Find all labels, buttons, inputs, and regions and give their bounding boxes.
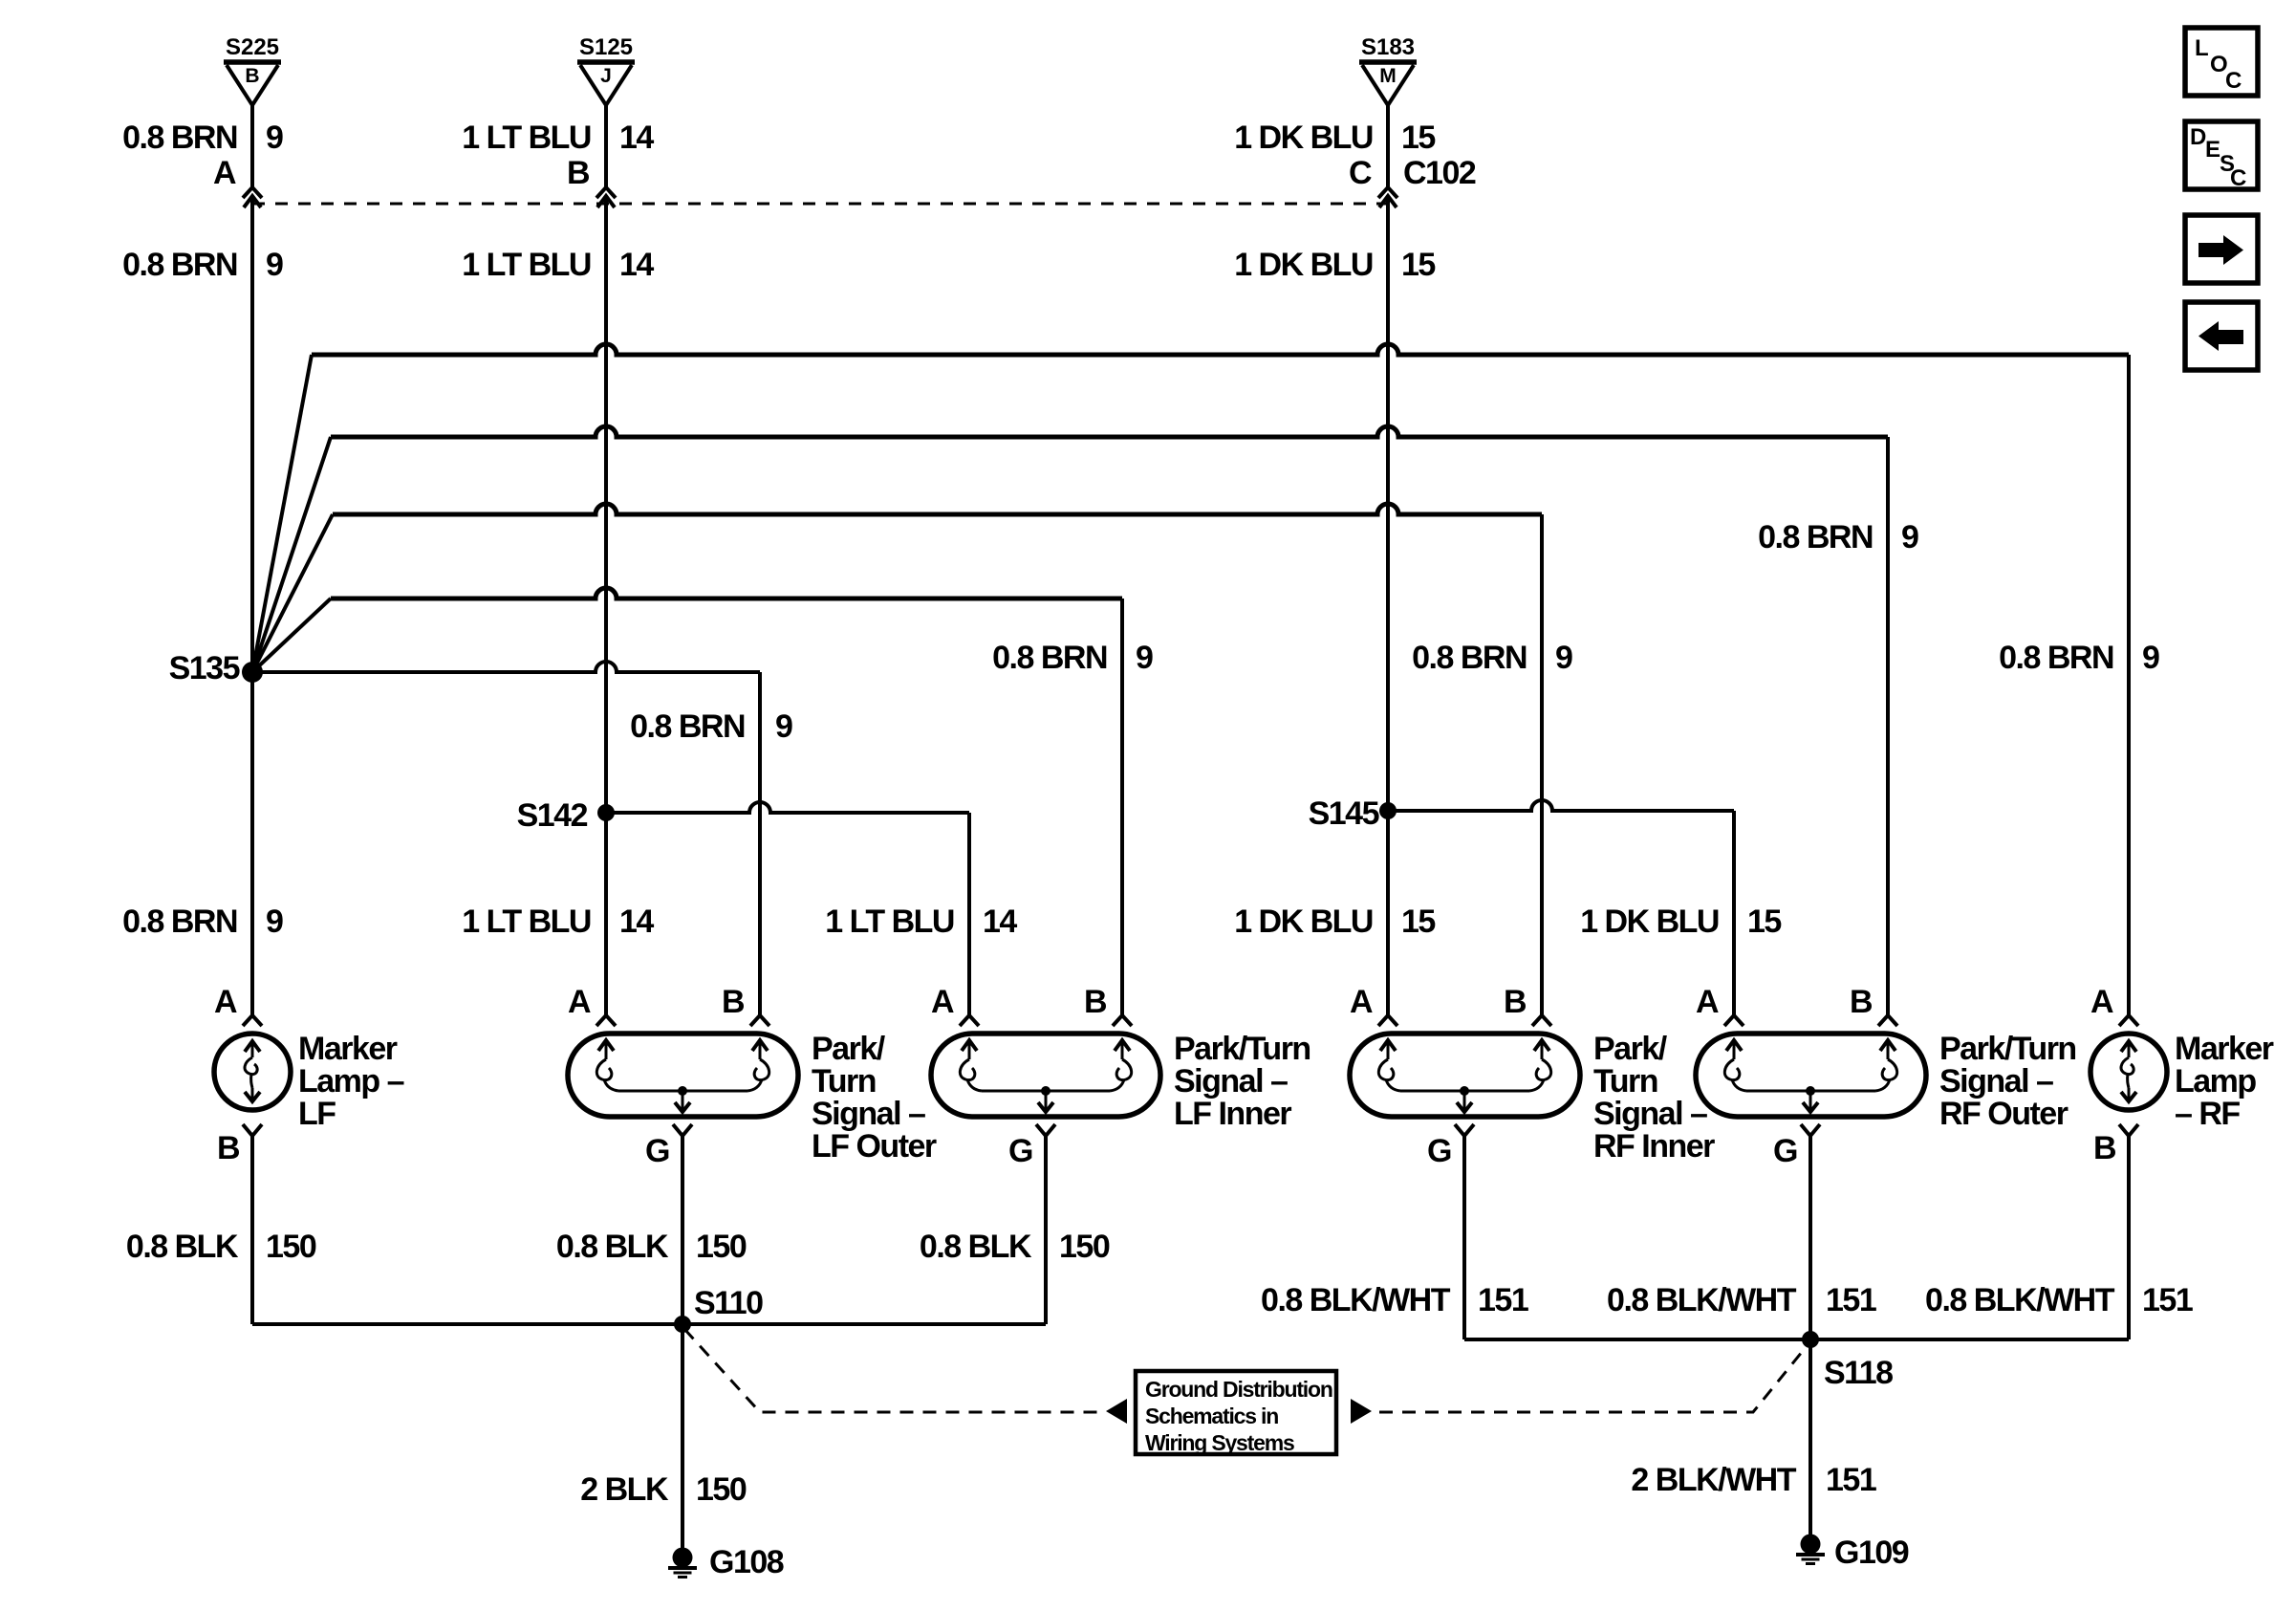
- svg-text:0.8 BRN: 0.8 BRN: [122, 247, 237, 283]
- svg-text:C: C: [2225, 68, 2242, 94]
- svg-text:1 LT BLU: 1 LT BLU: [462, 247, 591, 283]
- svg-text:1 DK BLU: 1 DK BLU: [1580, 903, 1719, 940]
- svg-text:0.8 BLK/WHT: 0.8 BLK/WHT: [1261, 1282, 1451, 1318]
- svg-text:G109: G109: [1834, 1535, 1909, 1571]
- svg-text:2 BLK: 2 BLK: [580, 1471, 669, 1508]
- svg-text:0.8 BLK: 0.8 BLK: [126, 1229, 239, 1265]
- svg-text:– RF: – RF: [2175, 1096, 2240, 1132]
- svg-text:Marker: Marker: [298, 1031, 398, 1067]
- svg-text:1 LT BLU: 1 LT BLU: [825, 903, 954, 940]
- svg-text:0.8 BRN: 0.8 BRN: [122, 120, 237, 156]
- svg-text:C: C: [2230, 165, 2246, 191]
- svg-text:9: 9: [266, 903, 283, 940]
- svg-text:0.8 BRN: 0.8 BRN: [1412, 640, 1527, 676]
- svg-text:Schematics in: Schematics in: [1145, 1404, 1278, 1428]
- svg-text:0.8 BLK/WHT: 0.8 BLK/WHT: [1925, 1282, 2115, 1318]
- svg-text:B: B: [567, 155, 590, 191]
- svg-text:J: J: [600, 65, 612, 87]
- svg-text:15: 15: [1401, 120, 1435, 156]
- svg-text:A: A: [2090, 984, 2113, 1020]
- svg-text:A: A: [214, 984, 237, 1020]
- svg-text:L: L: [2195, 35, 2209, 61]
- svg-text:1 DK BLU: 1 DK BLU: [1234, 120, 1373, 156]
- svg-text:151: 151: [1826, 1462, 1876, 1498]
- svg-text:0.8 BRN: 0.8 BRN: [992, 640, 1107, 676]
- svg-text:LF Inner: LF Inner: [1174, 1096, 1291, 1132]
- svg-text:1 LT BLU: 1 LT BLU: [462, 120, 591, 156]
- svg-text:14: 14: [619, 903, 654, 940]
- svg-text:Lamp –: Lamp –: [298, 1063, 404, 1099]
- svg-text:A: A: [1350, 984, 1373, 1020]
- svg-text:C102: C102: [1403, 155, 1476, 191]
- svg-text:0.8 BRN: 0.8 BRN: [1999, 640, 2113, 676]
- svg-text:G: G: [645, 1133, 669, 1169]
- svg-text:G: G: [1427, 1133, 1451, 1169]
- svg-text:0.8 BRN: 0.8 BRN: [630, 708, 745, 745]
- svg-text:9: 9: [1901, 519, 1918, 555]
- svg-text:0.8 BLK/WHT: 0.8 BLK/WHT: [1607, 1282, 1797, 1318]
- svg-text:C: C: [1349, 155, 1372, 191]
- svg-text:S125: S125: [579, 34, 633, 60]
- svg-text:9: 9: [2142, 640, 2159, 676]
- svg-text:1 LT BLU: 1 LT BLU: [462, 903, 591, 940]
- svg-text:RF Outer: RF Outer: [1939, 1096, 2069, 1132]
- svg-text:14: 14: [983, 903, 1017, 940]
- svg-text:Park/Turn: Park/Turn: [1939, 1031, 2076, 1067]
- svg-text:9: 9: [266, 247, 283, 283]
- svg-text:Signal –: Signal –: [812, 1096, 925, 1132]
- svg-text:B: B: [2093, 1130, 2116, 1166]
- svg-text:G: G: [1773, 1133, 1797, 1169]
- svg-text:S135: S135: [169, 650, 240, 686]
- svg-text:Park/: Park/: [1593, 1031, 1668, 1067]
- svg-text:9: 9: [775, 708, 792, 745]
- svg-text:B: B: [1084, 984, 1107, 1020]
- svg-text:G: G: [1008, 1133, 1032, 1169]
- svg-text:Marker: Marker: [2175, 1031, 2274, 1067]
- svg-text:15: 15: [1747, 903, 1781, 940]
- svg-text:9: 9: [1555, 640, 1572, 676]
- svg-text:1 DK BLU: 1 DK BLU: [1234, 903, 1373, 940]
- svg-text:S110: S110: [694, 1285, 763, 1321]
- svg-text:A: A: [568, 984, 591, 1020]
- svg-text:E: E: [2205, 137, 2220, 163]
- svg-text:Park/Turn: Park/Turn: [1174, 1031, 1310, 1067]
- svg-text:Signal –: Signal –: [1939, 1063, 2053, 1099]
- svg-text:150: 150: [696, 1229, 747, 1265]
- svg-text:150: 150: [266, 1229, 316, 1265]
- svg-text:LF: LF: [298, 1096, 336, 1132]
- svg-text:15: 15: [1401, 903, 1435, 940]
- svg-text:S145: S145: [1309, 795, 1379, 832]
- svg-text:Park/: Park/: [812, 1031, 886, 1067]
- svg-text:S225: S225: [226, 34, 279, 60]
- svg-text:0.8 BLK: 0.8 BLK: [556, 1229, 669, 1265]
- svg-text:Ground Distribution: Ground Distribution: [1145, 1377, 1332, 1402]
- svg-text:RF Inner: RF Inner: [1593, 1128, 1715, 1165]
- svg-text:0.8 BRN: 0.8 BRN: [122, 903, 237, 940]
- svg-text:B: B: [245, 65, 259, 87]
- svg-text:Turn: Turn: [812, 1063, 876, 1099]
- svg-text:S183: S183: [1361, 34, 1415, 60]
- svg-text:Lamp: Lamp: [2175, 1063, 2256, 1099]
- svg-text:151: 151: [1478, 1282, 1528, 1318]
- svg-text:15: 15: [1401, 247, 1435, 283]
- svg-text:151: 151: [1826, 1282, 1876, 1318]
- svg-text:B: B: [1850, 984, 1873, 1020]
- svg-text:150: 150: [696, 1471, 747, 1508]
- svg-text:0.8 BRN: 0.8 BRN: [1758, 519, 1873, 555]
- svg-text:D: D: [2190, 124, 2206, 150]
- svg-text:B: B: [1504, 984, 1527, 1020]
- svg-text:9: 9: [1136, 640, 1153, 676]
- svg-text:Turn: Turn: [1593, 1063, 1657, 1099]
- svg-text:150: 150: [1059, 1229, 1110, 1265]
- svg-text:2 BLK/WHT: 2 BLK/WHT: [1631, 1462, 1796, 1498]
- svg-text:151: 151: [2142, 1282, 2193, 1318]
- svg-text:14: 14: [619, 120, 654, 156]
- svg-text:B: B: [722, 984, 745, 1020]
- svg-text:LF Outer: LF Outer: [812, 1128, 937, 1165]
- svg-text:A: A: [1696, 984, 1719, 1020]
- svg-text:14: 14: [619, 247, 654, 283]
- svg-text:Signal –: Signal –: [1593, 1096, 1707, 1132]
- svg-text:G108: G108: [709, 1544, 784, 1580]
- svg-text:A: A: [213, 155, 236, 191]
- svg-text:1 DK BLU: 1 DK BLU: [1234, 247, 1373, 283]
- svg-text:S142: S142: [517, 797, 588, 834]
- svg-text:0.8 BLK: 0.8 BLK: [920, 1229, 1032, 1265]
- svg-text:A: A: [931, 984, 954, 1020]
- svg-text:Signal –: Signal –: [1174, 1063, 1288, 1099]
- svg-text:S118: S118: [1824, 1355, 1893, 1391]
- svg-text:B: B: [217, 1130, 240, 1166]
- svg-text:9: 9: [266, 120, 283, 156]
- svg-text:Wiring Systems: Wiring Systems: [1145, 1430, 1294, 1455]
- svg-text:M: M: [1379, 65, 1397, 87]
